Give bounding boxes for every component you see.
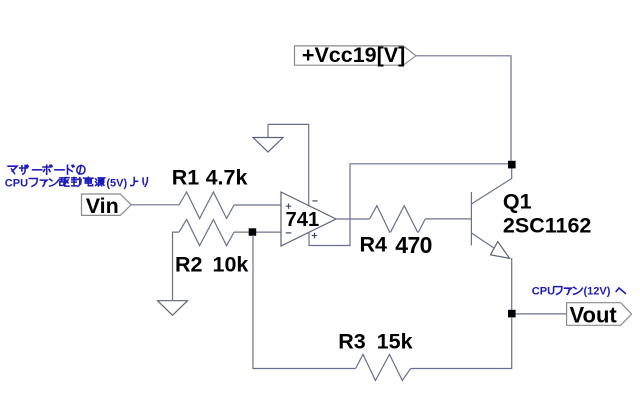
svg-text:470: 470 (395, 232, 432, 258)
wire R1 to op-amp +in (234, 204, 281, 206)
svg-text:R2: R2 (175, 252, 203, 276)
svg-text:(5V): (5V) (106, 177, 127, 189)
comment text (blue) CPUファン(12V)へ (532, 286, 626, 298)
ground (R2) (158, 301, 188, 316)
comment text (blue) CPUファン駆動電源(5V)より (5, 177, 148, 189)
wire Vcc tag to collector node (416, 56, 511, 161)
wire R4 to Q1 base (425, 218, 471, 220)
svg-text:R4: R4 (360, 232, 388, 256)
wire op-amp output to R4 (336, 218, 370, 220)
wire output node to Vout tag (516, 313, 567, 315)
wire output node down to R3 (411, 317, 512, 369)
wire R2 to op-amp -in (234, 231, 281, 233)
svg-text:CPU: CPU (532, 286, 555, 298)
wire ground to op-amp top pin (268, 124, 309, 205)
pin label V- (312, 200, 317, 202)
wire emitter to output node (511, 258, 513, 314)
svg-text:4.7k: 4.7k (206, 166, 248, 190)
svg-text:10k: 10k (213, 252, 249, 276)
svg-text:R3: R3 (338, 329, 366, 353)
pin label -in (286, 232, 291, 234)
comment text (blue) マザーボードの (8, 165, 85, 174)
svg-text:R1: R1 (172, 166, 200, 190)
resistor R2 (179, 220, 234, 246)
resistor R4 (370, 206, 426, 233)
junction node Vout (508, 310, 516, 318)
net label +Vcc tag (295, 46, 417, 65)
junction node collector/Vcc (508, 161, 516, 169)
pin label V+ (312, 233, 317, 238)
net label Vout tag (567, 303, 632, 326)
svg-text:+Vcc19[V]: +Vcc19[V] (302, 43, 405, 67)
svg-text:Q1: Q1 (503, 189, 532, 213)
wire R2 ground lead (173, 232, 180, 300)
ground (op-amp V- pin) (253, 124, 283, 152)
wire op-amp V+ pin to supply rail (309, 164, 512, 246)
net label Vin tag (82, 194, 132, 215)
svg-text:CPU: CPU (5, 177, 28, 189)
wire feedback down and to R3 (253, 235, 356, 369)
resistor R3 (356, 354, 411, 380)
pin label +in (286, 204, 291, 209)
junction node inverting input (249, 228, 257, 236)
svg-text:Vout: Vout (570, 302, 618, 327)
svg-text:Vin: Vin (86, 194, 119, 218)
transistor Q1 (471, 168, 511, 258)
svg-text:2SC1162: 2SC1162 (503, 214, 592, 238)
resistor R1 (179, 192, 234, 219)
svg-text:(12V): (12V) (584, 286, 611, 298)
op-amp U1 741 (281, 192, 336, 246)
svg-text:15k: 15k (377, 329, 413, 353)
wire Vin to R1 (131, 204, 179, 206)
svg-text:741: 741 (286, 209, 320, 231)
